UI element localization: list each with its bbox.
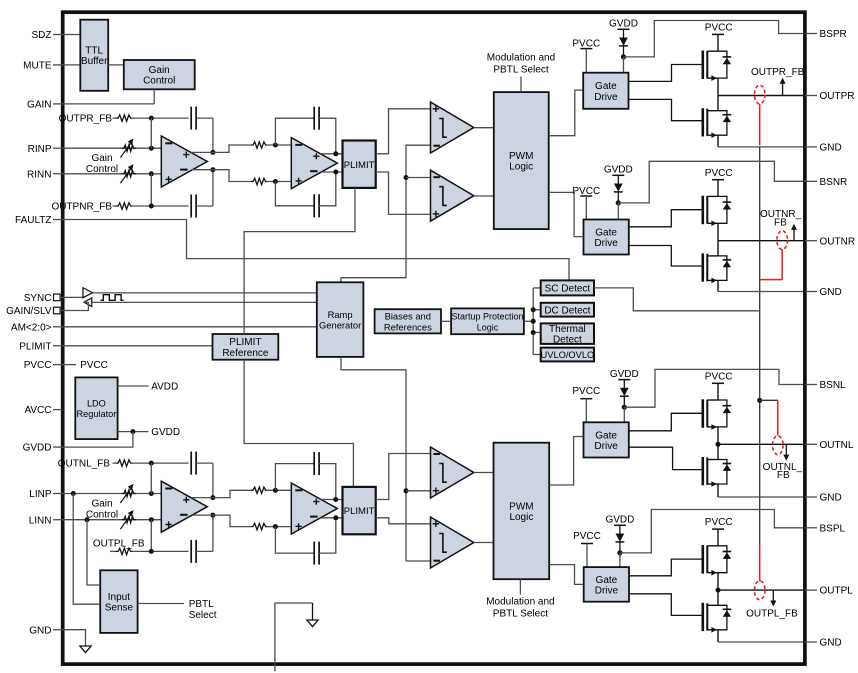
svg-text:RINN: RINN bbox=[27, 169, 51, 180]
svg-text:OUTNL: OUTNL bbox=[820, 440, 854, 451]
svg-text:FB: FB bbox=[777, 470, 790, 481]
svg-text:BSPR: BSPR bbox=[820, 29, 847, 40]
svg-text:GND: GND bbox=[820, 143, 842, 154]
svg-text:Modulation and: Modulation and bbox=[487, 52, 555, 63]
svg-text:GND: GND bbox=[820, 287, 842, 298]
svg-text:Input: Input bbox=[108, 592, 130, 603]
svg-text:Modulation and: Modulation and bbox=[486, 597, 554, 608]
svg-text:GAIN: GAIN bbox=[27, 100, 51, 111]
svg-text:Reference: Reference bbox=[222, 348, 269, 359]
svg-text:OUTPR_FB: OUTPR_FB bbox=[751, 67, 805, 78]
svg-text:PLIMIT: PLIMIT bbox=[344, 160, 375, 171]
svg-text:Drive: Drive bbox=[594, 238, 618, 249]
svg-text:Select: Select bbox=[189, 610, 217, 621]
svg-text:PVCC: PVCC bbox=[573, 531, 601, 542]
svg-text:OUTPL: OUTPL bbox=[820, 586, 854, 597]
svg-text:UVLO/OVLO: UVLO/OVLO bbox=[541, 350, 595, 360]
svg-text:PLIMIT: PLIMIT bbox=[344, 506, 375, 517]
svg-text:Control: Control bbox=[86, 164, 118, 175]
svg-text:Gate: Gate bbox=[595, 227, 617, 238]
svg-text:GND: GND bbox=[820, 638, 842, 649]
svg-text:GVDD: GVDD bbox=[605, 515, 634, 526]
svg-text:RINP: RINP bbox=[28, 144, 52, 155]
svg-text:DC Detect: DC Detect bbox=[544, 305, 590, 316]
svg-text:Buffer: Buffer bbox=[81, 56, 108, 67]
svg-text:Startup Protection: Startup Protection bbox=[451, 312, 523, 322]
svg-text:SC Detect: SC Detect bbox=[545, 284, 591, 295]
svg-text:GVDD: GVDD bbox=[610, 369, 639, 380]
svg-text:BSNR: BSNR bbox=[820, 177, 848, 188]
svg-text:PBTL Select: PBTL Select bbox=[493, 609, 548, 620]
svg-text:Ramp: Ramp bbox=[328, 309, 353, 320]
svg-text:Drive: Drive bbox=[594, 92, 618, 103]
svg-text:LINN: LINN bbox=[29, 515, 52, 526]
svg-text:GVDD: GVDD bbox=[151, 427, 180, 438]
svg-text:BSNL: BSNL bbox=[820, 380, 847, 391]
svg-text:Thermal: Thermal bbox=[549, 324, 586, 335]
svg-text:Logic: Logic bbox=[509, 512, 533, 523]
svg-text:GAIN/SLV: GAIN/SLV bbox=[6, 306, 52, 317]
svg-text:GVDD: GVDD bbox=[604, 165, 633, 176]
svg-text:PVCC: PVCC bbox=[705, 517, 733, 528]
svg-text:FAULTZ: FAULTZ bbox=[15, 215, 51, 226]
svg-text:FB: FB bbox=[774, 218, 787, 229]
svg-text:PVCC: PVCC bbox=[705, 372, 733, 383]
svg-text:PBTL Select: PBTL Select bbox=[493, 64, 548, 75]
svg-text:GVDD: GVDD bbox=[609, 19, 638, 30]
svg-text:Sense: Sense bbox=[105, 603, 134, 614]
svg-text:PBTL: PBTL bbox=[189, 599, 214, 610]
svg-text:PVCC: PVCC bbox=[24, 360, 52, 371]
svg-text:PVCC: PVCC bbox=[705, 23, 733, 34]
svg-text:BSPL: BSPL bbox=[820, 523, 846, 534]
svg-text:OUTPL_FB: OUTPL_FB bbox=[746, 608, 798, 619]
svg-text:Gate: Gate bbox=[595, 430, 617, 441]
svg-text:PLIMIT: PLIMIT bbox=[19, 341, 51, 352]
svg-text:Detect: Detect bbox=[553, 335, 582, 346]
svg-text:GND: GND bbox=[820, 493, 842, 504]
svg-text:OUTNR: OUTNR bbox=[820, 236, 856, 247]
svg-text:GVDD: GVDD bbox=[23, 443, 52, 454]
svg-text:SDZ: SDZ bbox=[32, 30, 52, 41]
svg-text:Control: Control bbox=[143, 76, 175, 87]
svg-text:OUTNL_FB: OUTNL_FB bbox=[58, 459, 111, 470]
svg-text:AM<2:0>: AM<2:0> bbox=[11, 322, 52, 333]
svg-text:Gain: Gain bbox=[91, 498, 112, 509]
svg-text:Gain: Gain bbox=[91, 153, 112, 164]
svg-text:Biases and: Biases and bbox=[385, 311, 431, 322]
svg-text:MUTE: MUTE bbox=[23, 61, 52, 72]
svg-text:Gate: Gate bbox=[596, 575, 618, 586]
svg-text:PVCC: PVCC bbox=[572, 386, 600, 397]
svg-text:TTL: TTL bbox=[85, 46, 103, 57]
svg-text:Generator: Generator bbox=[319, 320, 361, 331]
svg-text:OUTPNR_FB: OUTPNR_FB bbox=[51, 202, 112, 213]
svg-text:Drive: Drive bbox=[595, 585, 619, 596]
svg-text:Gate: Gate bbox=[595, 81, 617, 92]
svg-text:PVCC: PVCC bbox=[705, 168, 733, 179]
svg-text:Regulator: Regulator bbox=[76, 409, 116, 419]
svg-text:PVCC: PVCC bbox=[80, 360, 108, 371]
svg-text:References: References bbox=[384, 321, 432, 332]
svg-text:Drive: Drive bbox=[594, 441, 618, 452]
svg-text:PWM: PWM bbox=[509, 501, 533, 512]
svg-text:OUTPR: OUTPR bbox=[820, 91, 855, 102]
svg-text:LDO: LDO bbox=[87, 399, 106, 409]
svg-text:SYNC: SYNC bbox=[24, 293, 52, 304]
svg-text:Gain: Gain bbox=[149, 65, 170, 76]
svg-text:OUTPR_FB: OUTPR_FB bbox=[59, 114, 113, 125]
svg-text:AVCC: AVCC bbox=[24, 405, 51, 416]
svg-text:OUTPL_FB: OUTPL_FB bbox=[93, 538, 145, 549]
svg-text:Logic: Logic bbox=[477, 322, 499, 332]
svg-text:GND: GND bbox=[29, 625, 51, 636]
svg-text:Control: Control bbox=[86, 509, 118, 520]
svg-text:PWM: PWM bbox=[509, 151, 533, 162]
svg-text:LINP: LINP bbox=[29, 489, 52, 500]
svg-text:AVDD: AVDD bbox=[151, 382, 178, 393]
svg-text:Logic: Logic bbox=[509, 162, 533, 173]
svg-text:PLIMIT: PLIMIT bbox=[229, 337, 261, 348]
